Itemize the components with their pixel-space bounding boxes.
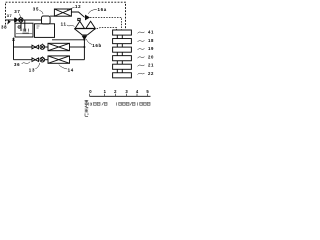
valve 37 bowtie	[15, 18, 18, 22]
svg-text:11: 11	[61, 21, 67, 26]
tank liquid line	[16, 33, 32, 35]
feed line 2	[94, 27, 117, 30]
tank inner marks	[22, 29, 29, 33]
stack label leaders	[138, 32, 145, 34]
supply pipe	[6, 19, 42, 21]
svg-text:20: 20	[148, 54, 154, 59]
svg-text:22: 22	[148, 71, 154, 76]
joint mark	[12, 39, 14, 41]
pipe row1 to manifold	[70, 46, 85, 48]
svg-text:16b: 16b	[92, 43, 102, 48]
pipe bath to manifold	[52, 39, 84, 41]
gas line 2 pipe	[14, 59, 33, 61]
chamber 19	[113, 47, 132, 52]
svg-text:12: 12	[75, 4, 81, 9]
junction dot	[83, 46, 85, 48]
inlet arrow 38	[7, 20, 11, 24]
svg-text:37: 37	[14, 9, 20, 14]
vaporizer 11	[74, 28, 95, 30]
dip tube a	[20, 22, 22, 31]
axis numbers	[89, 89, 149, 94]
svg-text:37: 37	[7, 13, 12, 18]
chamber 18	[113, 39, 132, 44]
valve 36 bowtie row2	[32, 58, 39, 62]
gas line 1 pipe	[14, 46, 33, 48]
flow arrow 16a	[85, 15, 90, 21]
MFC 14 crossed box row1	[48, 43, 70, 50]
MFC 12 crossed box	[54, 9, 71, 16]
chamber 41	[113, 30, 132, 35]
valve 37 circle-x	[19, 18, 23, 22]
feed line 1	[90, 18, 122, 31]
manifold pipe	[83, 40, 85, 59]
time axis	[90, 95, 151, 97]
enclosure dashed border	[6, 2, 126, 29]
pipe	[45, 59, 48, 61]
MFC 14 crossed box row2	[48, 56, 70, 63]
svg-text:36: 36	[14, 62, 20, 67]
svg-text:13: 13	[29, 67, 35, 72]
chamber 20	[113, 56, 132, 61]
svg-text:19: 19	[148, 46, 154, 51]
pipe pump to MFC12	[50, 15, 54, 17]
pump 35 rounded box	[42, 16, 51, 24]
tank 35	[15, 23, 33, 37]
pipe row2 to manifold	[70, 59, 85, 61]
annotation period 3	[138, 102, 150, 105]
pipe MFC12 to injector	[71, 12, 84, 17]
stack connectors	[117, 35, 122, 73]
svg-text:21: 21	[148, 63, 154, 68]
pipe	[45, 46, 48, 48]
flow arrow 16b	[82, 36, 88, 41]
svg-text:38: 38	[1, 25, 7, 30]
annotation period 1	[89, 102, 107, 105]
junction dot	[83, 39, 85, 41]
dip tube b	[24, 20, 26, 32]
svg-text:18: 18	[148, 38, 154, 43]
annotation period 2	[117, 102, 135, 105]
svg-text:35: 35	[33, 6, 39, 11]
svg-text:41: 41	[148, 30, 154, 35]
bath box	[35, 24, 55, 38]
stack labels	[148, 30, 154, 76]
valve 13 circle-x row1	[41, 44, 43, 45]
chamber 21	[113, 64, 132, 69]
valve 13 circle-x row2	[41, 56, 43, 57]
bath inner mark	[37, 26, 40, 28]
chamber 22	[113, 73, 132, 78]
supply vertical	[13, 38, 15, 60]
tank inner valve mark	[18, 26, 21, 29]
valve 36 bowtie row1	[32, 45, 39, 49]
axis title vertical text	[85, 100, 89, 116]
reactor stack	[113, 30, 132, 78]
svg-text:16a: 16a	[98, 7, 107, 12]
svg-text:14: 14	[68, 67, 74, 72]
